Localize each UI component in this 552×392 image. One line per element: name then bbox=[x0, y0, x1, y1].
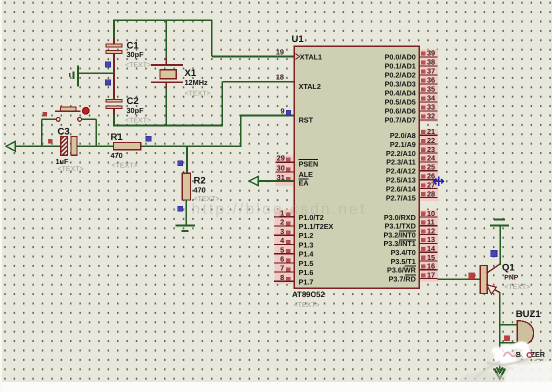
crystal X1 bbox=[165, 58, 167, 65]
svg-text:P2.2/A10: P2.2/A10 bbox=[386, 149, 416, 158]
wire to RST pin 9 bbox=[241, 115, 295, 117]
svg-text:P2.1/A9: P2.1/A9 bbox=[390, 140, 416, 149]
wire P3.7/RD to Q1 base bbox=[438, 278, 481, 280]
pin 3 P1.2 bbox=[274, 234, 294, 236]
svg-text:P2.7/A15: P2.7/A15 bbox=[386, 193, 416, 202]
net terminal arrow EA bbox=[249, 176, 258, 185]
ground below R2 bbox=[175, 225, 195, 227]
pin 25 P2.4/A12 bbox=[419, 170, 437, 172]
svg-text:P1.6: P1.6 bbox=[299, 268, 314, 277]
wire reset rail middle segment bbox=[77, 145, 114, 147]
svg-text:P0.7/AD7: P0.7/AD7 bbox=[385, 116, 416, 125]
svg-text:P2.3/A11: P2.3/A11 bbox=[386, 158, 416, 167]
svg-text:<TEXT>: <TEXT> bbox=[58, 166, 84, 173]
svg-text:12: 12 bbox=[427, 226, 435, 235]
svg-text:<TEXT>: <TEXT> bbox=[294, 302, 320, 309]
wire crystal bottom to rail bbox=[165, 89, 167, 127]
wire Q1 emitter down bbox=[499, 292, 501, 370]
pin 5 P1.4 bbox=[274, 253, 294, 255]
svg-text:32: 32 bbox=[427, 112, 435, 121]
wire bottom rail bbox=[113, 125, 223, 127]
svg-text:36: 36 bbox=[427, 76, 435, 85]
node marker blue (below R2) bbox=[178, 206, 183, 211]
wire junction to ground bbox=[79, 72, 115, 74]
svg-text:34: 34 bbox=[427, 94, 436, 103]
svg-text:P0.0/AD0: P0.0/AD0 bbox=[385, 53, 416, 62]
push button (reset) bbox=[55, 110, 80, 112]
C3 origin marker bbox=[48, 139, 52, 143]
capacitor C2 bbox=[113, 73, 115, 99]
svg-text:<TEXT>: <TEXT> bbox=[504, 284, 530, 291]
svg-text:http://blog.csdn.net: http://blog.csdn.net bbox=[192, 201, 367, 218]
pin 30 ALE bbox=[276, 171, 295, 173]
pin 29 PSEN bbox=[276, 161, 295, 163]
svg-text:26: 26 bbox=[427, 172, 435, 181]
node marker red buzzer bbox=[504, 336, 509, 341]
svg-text:470: 470 bbox=[194, 186, 206, 195]
svg-text:<TEXT>: <TEXT> bbox=[125, 62, 151, 69]
svg-text:P2.0/A8: P2.0/A8 bbox=[390, 131, 416, 140]
svg-text:P0.2/AD2: P0.2/AD2 bbox=[385, 71, 416, 80]
node marker blue above Q1 bbox=[491, 250, 497, 256]
pin highlight strip right P3 group bbox=[420, 210, 438, 282]
svg-text:5: 5 bbox=[280, 245, 284, 254]
wire R1/R2 junction down to R2 bbox=[186, 147, 188, 174]
svg-text:PNP: PNP bbox=[504, 275, 518, 282]
wire C2 down bbox=[113, 114, 115, 126]
svg-text:23: 23 bbox=[427, 145, 435, 154]
svg-text:15: 15 bbox=[427, 253, 435, 262]
node marker blue (right of R1) bbox=[146, 136, 151, 141]
wire to XTAL2 pin 18 bbox=[222, 81, 294, 83]
wire R2 to ground bbox=[185, 200, 187, 226]
resistor R1 bbox=[114, 143, 141, 150]
pin 22 P2.1/A9 bbox=[419, 143, 437, 145]
wire button left vertical bbox=[41, 119, 43, 147]
transistor Q1 bbox=[480, 266, 487, 294]
svg-text:<TEXT>: <TEXT> bbox=[112, 162, 138, 169]
svg-text:BUZ1: BUZ1 bbox=[516, 309, 542, 320]
pin 32 P0.7/AD7 bbox=[419, 119, 437, 121]
svg-text:P3.2/INT0: P3.2/INT0 bbox=[383, 230, 415, 239]
bottom white band bbox=[0, 382, 552, 392]
pin 37 P0.2/AD2 bbox=[419, 74, 437, 76]
svg-text:14: 14 bbox=[427, 244, 436, 253]
pin 28 P2.7/A15 bbox=[419, 197, 437, 199]
pin 36 P0.3/AD3 bbox=[419, 83, 437, 85]
white wash bottom right bbox=[503, 361, 552, 392]
pin 7 P1.6 bbox=[274, 271, 294, 273]
svg-text:P1.4: P1.4 bbox=[299, 250, 314, 259]
svg-text:Q1: Q1 bbox=[502, 263, 515, 274]
svg-text:P0.4/AD4: P0.4/AD4 bbox=[385, 89, 416, 98]
pin 10 P3.0/RXD bbox=[419, 216, 437, 218]
pin 13 P3.3/INT1 bbox=[419, 242, 437, 244]
pin 4 P1.3 bbox=[274, 243, 294, 245]
svg-text:P2.5/A13: P2.5/A13 bbox=[386, 176, 416, 185]
pin 38 P0.1/AD1 bbox=[419, 65, 437, 67]
svg-text:29: 29 bbox=[277, 154, 285, 163]
pin highlight strip left PSEN/ALE/EA bbox=[276, 155, 294, 185]
wire button right vertical bbox=[95, 119, 97, 147]
wire Q1 collector to ground bbox=[499, 226, 501, 265]
svg-text:R1: R1 bbox=[111, 132, 124, 143]
pin 1 P1.0/T2 bbox=[274, 216, 294, 218]
svg-text:24: 24 bbox=[427, 154, 436, 163]
pin 21 P2.0/A8 bbox=[419, 134, 437, 136]
wire button left horizontal bbox=[42, 118, 57, 120]
svg-text:PSEN: PSEN bbox=[299, 159, 319, 168]
svg-text:35: 35 bbox=[427, 85, 435, 94]
svg-text:30: 30 bbox=[277, 163, 285, 172]
wire reset rail right segment bbox=[141, 145, 242, 147]
wire reset rail left segment bbox=[15, 145, 61, 147]
svg-text:7: 7 bbox=[280, 264, 284, 273]
svg-text:2: 2 bbox=[280, 218, 284, 227]
svg-text:11: 11 bbox=[427, 218, 435, 227]
svg-text:P2.6/A14: P2.6/A14 bbox=[386, 184, 416, 193]
button origin marker bbox=[43, 112, 47, 116]
pin 16 P3.6/WR bbox=[419, 269, 437, 271]
wire RST vertical bbox=[240, 115, 242, 146]
svg-text:9: 9 bbox=[280, 107, 284, 116]
svg-text:10: 10 bbox=[427, 209, 435, 218]
net terminal arrow left (reset rail) bbox=[6, 141, 15, 151]
pin 15 P3.5/T1 bbox=[419, 260, 437, 262]
svg-text:30pF: 30pF bbox=[127, 106, 145, 115]
svg-text:28: 28 bbox=[427, 189, 435, 198]
svg-text:P3.7/RD: P3.7/RD bbox=[389, 274, 416, 283]
pin highlight strip right P2 group bbox=[420, 129, 438, 201]
svg-text:38: 38 bbox=[427, 58, 435, 67]
svg-text:33: 33 bbox=[427, 103, 435, 112]
pin 8 P1.7 bbox=[274, 280, 294, 282]
svg-text:P3.5/T1: P3.5/T1 bbox=[391, 257, 416, 266]
svg-text:P2.4/A12: P2.4/A12 bbox=[386, 167, 416, 176]
svg-text:1uF: 1uF bbox=[56, 157, 70, 166]
pin highlight strip left P1 group bbox=[275, 210, 293, 285]
svg-text:12MHz: 12MHz bbox=[185, 78, 208, 87]
resistor R2 bbox=[182, 173, 190, 200]
svg-text:P1.1/T2EX: P1.1/T2EX bbox=[299, 222, 334, 231]
svg-text:P0.6/AD6: P0.6/AD6 bbox=[385, 107, 416, 116]
capacitor C1 bbox=[113, 38, 115, 44]
pin 27 P2.6/A14 bbox=[419, 188, 437, 190]
svg-text:30pF: 30pF bbox=[127, 50, 145, 59]
svg-text:P1.7: P1.7 bbox=[299, 277, 314, 286]
svg-text:P1.3: P1.3 bbox=[299, 240, 314, 249]
pin 11 P3.1/TXD bbox=[419, 225, 437, 227]
wire EA to arrow bbox=[258, 180, 294, 182]
svg-text:AT89C52: AT89C52 bbox=[292, 290, 325, 299]
svg-text:<TEXT>: <TEXT> bbox=[125, 117, 151, 124]
svg-text:P3.6/WR: P3.6/WR bbox=[387, 266, 417, 275]
svg-text:37: 37 bbox=[427, 67, 435, 76]
node marker blue above junction bbox=[105, 62, 110, 67]
wire to XTAL1 pin 19 bbox=[212, 56, 295, 58]
svg-text:P0.5/AD5: P0.5/AD5 bbox=[385, 98, 416, 107]
svg-text:P3.1/TXD: P3.1/TXD bbox=[385, 222, 416, 231]
svg-text:18: 18 bbox=[276, 73, 284, 82]
svg-text:19: 19 bbox=[276, 47, 284, 56]
pin 35 P0.4/AD4 bbox=[419, 92, 437, 94]
pin 33 P0.6/AD6 bbox=[419, 110, 437, 112]
svg-text:C3: C3 bbox=[58, 126, 70, 137]
svg-text:P1.2: P1.2 bbox=[299, 231, 314, 240]
svg-text:XTAL2: XTAL2 bbox=[299, 82, 321, 91]
wire bottom rail up to XTAL2 bbox=[221, 82, 223, 127]
ground arrow below buzzer bbox=[494, 369, 505, 379]
svg-text:39: 39 bbox=[427, 49, 435, 58]
pin 2 P1.1/T2EX bbox=[274, 225, 294, 227]
wire top rail bbox=[114, 19, 213, 21]
svg-text:17: 17 bbox=[427, 270, 435, 279]
node marker blue (above R2) bbox=[178, 161, 183, 166]
pin 12 P3.2/INT0 bbox=[419, 234, 437, 236]
svg-text:P0.3/AD3: P0.3/AD3 bbox=[385, 80, 416, 89]
svg-text:13: 13 bbox=[427, 235, 435, 244]
svg-text:22: 22 bbox=[427, 136, 435, 145]
svg-text:25: 25 bbox=[427, 163, 435, 172]
wire to buzzer bottom pin bbox=[500, 342, 525, 344]
op-amp U1 AT89C52 chip body bbox=[294, 46, 419, 288]
svg-text:6: 6 bbox=[280, 255, 284, 264]
wire top rail down to crystal bbox=[165, 20, 167, 59]
svg-text:16: 16 bbox=[427, 262, 435, 271]
pin 23 P2.2/A10 bbox=[419, 152, 437, 154]
pin 14 P3.4/T0 bbox=[419, 251, 437, 253]
pin 17 P3.7/RD bbox=[419, 278, 437, 280]
svg-text:P3.0/RXD: P3.0/RXD bbox=[384, 213, 416, 222]
wire top rail to C1 bbox=[113, 20, 115, 39]
pin 6 P1.5 bbox=[274, 262, 294, 264]
svg-text:21: 21 bbox=[427, 127, 435, 136]
svg-text:8: 8 bbox=[280, 273, 284, 282]
wire to buzzer top pin bbox=[500, 324, 518, 326]
ground above Q1 (pointing up) bbox=[490, 224, 509, 226]
svg-text:P3.3/INT1: P3.3/INT1 bbox=[383, 239, 415, 248]
wire top rail down to XTAL1 bbox=[211, 20, 213, 56]
svg-text:RST: RST bbox=[299, 115, 314, 124]
svg-text:470: 470 bbox=[111, 151, 123, 160]
buzzer BUZ1 bbox=[517, 321, 533, 346]
pin 26 P2.5/A13 bbox=[419, 179, 437, 181]
pin 34 P0.5/AD5 bbox=[419, 101, 437, 103]
svg-text:<TEXT>: <TEXT> bbox=[185, 90, 211, 97]
svg-text:XTAL1: XTAL1 bbox=[300, 52, 322, 61]
node marker red on Q1 base wire bbox=[469, 273, 475, 279]
pin 39 P0.0/AD0 bbox=[419, 56, 437, 58]
svg-text:EA: EA bbox=[299, 179, 309, 188]
svg-text:P0.1/AD1: P0.1/AD1 bbox=[385, 62, 416, 71]
wire button right horizontal bbox=[81, 118, 96, 120]
white smudge blob bbox=[474, 342, 531, 380]
pin highlight strip right P0 group bbox=[420, 50, 438, 123]
svg-text:P3.4/T0: P3.4/T0 bbox=[391, 248, 416, 257]
button actuator red dot bbox=[83, 108, 90, 115]
svg-text:3: 3 bbox=[280, 227, 284, 236]
node marker blue below junction bbox=[105, 80, 110, 85]
svg-text:P1.5: P1.5 bbox=[299, 259, 314, 268]
cursor crosshair icon bbox=[434, 177, 444, 187]
svg-text:U1: U1 bbox=[292, 34, 305, 45]
pin 24 P2.3/A11 bbox=[419, 161, 437, 163]
